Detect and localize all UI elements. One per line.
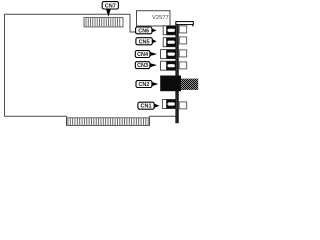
svg-text:CN7: CN7 <box>105 3 116 9</box>
svg-text:CN6: CN6 <box>138 28 149 34</box>
svg-text:CN2: CN2 <box>138 82 149 88</box>
svg-text:CN5: CN5 <box>139 39 150 45</box>
svg-text:CN1: CN1 <box>141 104 152 110</box>
svg-text:CN4: CN4 <box>137 52 149 58</box>
svg-text:V2577: V2577 <box>152 15 169 21</box>
svg-text:CN3: CN3 <box>137 63 148 69</box>
